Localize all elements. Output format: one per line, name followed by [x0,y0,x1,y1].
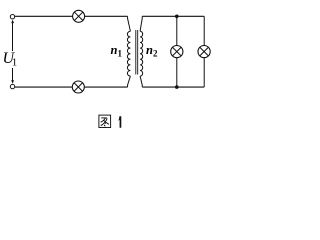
svg-text:1: 1 [12,57,18,69]
